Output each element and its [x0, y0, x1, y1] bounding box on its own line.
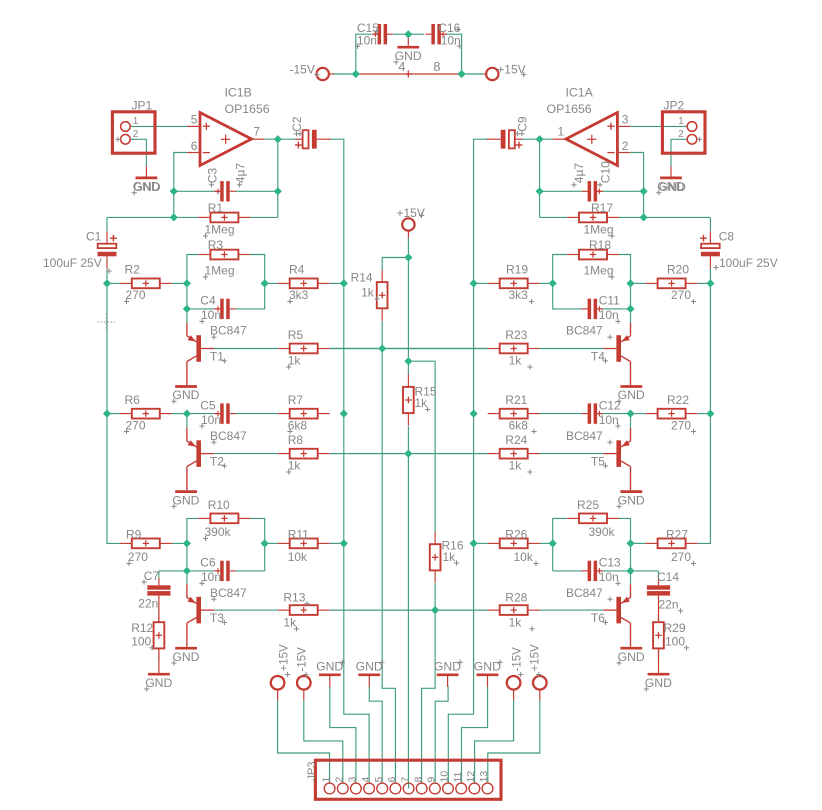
svg-text:10: 10: [439, 771, 451, 783]
svg-text:1k: 1k: [443, 550, 457, 564]
svg-text:GND: GND: [618, 388, 645, 402]
svg-text:1k: 1k: [288, 354, 302, 368]
svg-text:-15V: -15V: [290, 62, 315, 76]
svg-text:1: 1: [133, 116, 139, 127]
svg-text:270: 270: [126, 418, 146, 432]
svg-text:-15V: -15V: [297, 647, 309, 672]
svg-text:R3: R3: [208, 238, 224, 252]
svg-text:IC1A: IC1A: [566, 86, 594, 100]
svg-text:R5: R5: [288, 328, 304, 342]
svg-text:GND: GND: [434, 660, 461, 674]
svg-text:270: 270: [671, 550, 691, 564]
svg-text:C11: C11: [599, 294, 620, 308]
svg-text:100: 100: [665, 634, 685, 648]
svg-text:1Meg: 1Meg: [205, 223, 235, 237]
svg-text:22n: 22n: [138, 597, 158, 611]
svg-text:1k: 1k: [509, 354, 523, 368]
svg-text:T1: T1: [210, 350, 224, 364]
svg-text:C13: C13: [599, 556, 621, 570]
svg-text:GND: GND: [618, 493, 645, 507]
svg-text:3: 3: [622, 113, 629, 127]
svg-text:BC847: BC847: [566, 586, 603, 600]
svg-text:2: 2: [678, 129, 684, 140]
svg-text:2: 2: [334, 777, 346, 783]
svg-text:C3: C3: [205, 168, 219, 184]
svg-text:GND: GND: [134, 180, 161, 194]
svg-text:-15V: -15V: [511, 647, 523, 672]
svg-text:1: 1: [678, 116, 684, 127]
svg-text:JP2: JP2: [664, 99, 685, 113]
svg-text:10n: 10n: [201, 413, 221, 427]
svg-text:GND: GND: [474, 660, 501, 674]
svg-text:GND: GND: [172, 493, 199, 507]
svg-text:R2: R2: [125, 263, 141, 277]
svg-text:1k: 1k: [283, 616, 297, 630]
svg-text:8: 8: [433, 59, 440, 74]
svg-text:1k: 1k: [288, 459, 302, 473]
svg-text:C9: C9: [515, 116, 529, 132]
svg-text:+15V: +15V: [278, 644, 290, 672]
svg-text:R18: R18: [589, 238, 611, 252]
svg-text:4: 4: [398, 59, 405, 74]
svg-text:1k: 1k: [361, 286, 375, 300]
svg-text:10k: 10k: [288, 550, 308, 564]
svg-text:R7: R7: [288, 393, 304, 407]
svg-text:GND: GND: [145, 676, 172, 690]
svg-text:R13: R13: [283, 591, 305, 605]
svg-text:6: 6: [386, 777, 398, 783]
svg-text:R21: R21: [505, 393, 527, 407]
svg-text:2: 2: [622, 139, 629, 153]
svg-text:BC847: BC847: [566, 324, 603, 338]
svg-text:1: 1: [320, 777, 332, 783]
svg-text:1k: 1k: [509, 459, 523, 473]
svg-text:T6: T6: [591, 611, 605, 625]
svg-text:C8: C8: [719, 230, 735, 244]
svg-text:10n: 10n: [599, 308, 619, 322]
svg-text:5: 5: [191, 113, 198, 127]
svg-text:6k8: 6k8: [288, 418, 308, 432]
svg-text:GND: GND: [172, 388, 199, 402]
svg-text:9: 9: [426, 777, 438, 783]
svg-text:OP1656: OP1656: [225, 102, 270, 116]
svg-text:1Meg: 1Meg: [205, 264, 235, 278]
svg-text:BC847: BC847: [210, 324, 247, 338]
svg-text:C10: C10: [599, 161, 613, 183]
svg-text:T2: T2: [210, 455, 224, 469]
svg-text:R14: R14: [351, 270, 373, 284]
svg-text:390k: 390k: [589, 525, 616, 539]
svg-text:BC847: BC847: [210, 586, 247, 600]
svg-text:R27: R27: [666, 528, 688, 542]
svg-text:3: 3: [347, 777, 359, 783]
svg-text:1k: 1k: [415, 396, 429, 410]
svg-text:270: 270: [126, 288, 146, 302]
svg-text:4: 4: [360, 777, 372, 783]
svg-text:4µ7: 4µ7: [572, 163, 586, 184]
svg-text:R24: R24: [505, 433, 527, 447]
svg-text:390k: 390k: [205, 525, 232, 539]
svg-text:GND: GND: [356, 660, 383, 674]
svg-text:12: 12: [465, 771, 477, 783]
svg-text:OP1656: OP1656: [547, 102, 592, 116]
svg-text:C6: C6: [200, 556, 216, 570]
svg-text:BC847: BC847: [566, 429, 603, 443]
svg-text:1k: 1k: [509, 616, 523, 630]
svg-text:8: 8: [412, 777, 424, 783]
svg-text:C2: C2: [290, 116, 304, 132]
svg-text:3k3: 3k3: [289, 288, 309, 302]
svg-text:1Meg: 1Meg: [584, 264, 614, 278]
svg-text:270: 270: [128, 550, 148, 564]
svg-text:10n: 10n: [357, 34, 377, 48]
svg-text:T4: T4: [591, 350, 605, 364]
svg-text:4µ7: 4µ7: [233, 163, 247, 184]
svg-text:10n: 10n: [441, 34, 461, 48]
svg-text:R8: R8: [288, 433, 304, 447]
svg-text:+15V: +15V: [397, 206, 425, 220]
svg-text:100uF 25V: 100uF 25V: [719, 256, 778, 270]
svg-text:GND: GND: [316, 660, 343, 674]
svg-text:R9: R9: [126, 528, 142, 542]
svg-text:5: 5: [373, 777, 385, 783]
svg-text:GND: GND: [172, 650, 199, 664]
svg-text:R25: R25: [577, 498, 599, 512]
svg-text:C12: C12: [599, 398, 621, 412]
svg-text:R11: R11: [288, 528, 309, 542]
svg-text:GND: GND: [618, 650, 645, 664]
svg-text:6: 6: [191, 139, 198, 153]
svg-text:JP1: JP1: [132, 99, 153, 113]
svg-text:C14: C14: [657, 570, 679, 584]
svg-text:+15V: +15V: [529, 644, 541, 672]
svg-text:JP3: JP3: [306, 762, 318, 781]
svg-text:10n: 10n: [201, 308, 221, 322]
svg-text:10k: 10k: [514, 550, 534, 564]
svg-text:10n: 10n: [201, 570, 221, 584]
svg-text:R28: R28: [505, 591, 527, 605]
svg-text:BC847: BC847: [210, 429, 247, 443]
svg-text:R20: R20: [667, 263, 689, 277]
svg-text:1Meg: 1Meg: [584, 223, 614, 237]
svg-text:R19: R19: [506, 263, 528, 277]
svg-text:R29: R29: [664, 621, 686, 635]
svg-text:GND: GND: [659, 180, 686, 194]
svg-text:GND: GND: [645, 676, 672, 690]
svg-text:T5: T5: [591, 455, 605, 469]
svg-text:R23: R23: [505, 328, 527, 342]
svg-text:7: 7: [253, 124, 260, 138]
svg-text:R4: R4: [289, 263, 305, 277]
svg-text:R12: R12: [131, 621, 153, 635]
svg-text:T3: T3: [210, 611, 224, 625]
svg-text:1: 1: [558, 124, 565, 138]
svg-text:C7: C7: [144, 569, 160, 583]
svg-text:270: 270: [671, 288, 691, 302]
svg-text:R10: R10: [208, 498, 230, 512]
svg-text:R22: R22: [667, 393, 689, 407]
svg-text:22n: 22n: [659, 598, 679, 612]
svg-text:IC1B: IC1B: [225, 86, 252, 100]
svg-text:C5: C5: [200, 398, 216, 412]
svg-text:7: 7: [399, 777, 411, 783]
svg-text:100uF 25V: 100uF 25V: [43, 256, 102, 270]
svg-text:10n: 10n: [599, 570, 619, 584]
svg-text:R17: R17: [591, 201, 613, 215]
svg-text:C4: C4: [200, 294, 216, 308]
svg-text:10n: 10n: [599, 413, 619, 427]
svg-text:3k3: 3k3: [509, 288, 529, 302]
svg-text:270: 270: [671, 418, 691, 432]
svg-text:R1: R1: [208, 201, 224, 215]
svg-text:6k8: 6k8: [509, 418, 529, 432]
svg-text:R26: R26: [505, 528, 527, 542]
svg-text:11: 11: [452, 771, 464, 782]
svg-text:2: 2: [133, 129, 139, 140]
svg-text:100: 100: [131, 634, 151, 648]
svg-text:13: 13: [478, 771, 490, 783]
svg-text:R6: R6: [125, 393, 141, 407]
svg-text:C1: C1: [86, 230, 102, 244]
